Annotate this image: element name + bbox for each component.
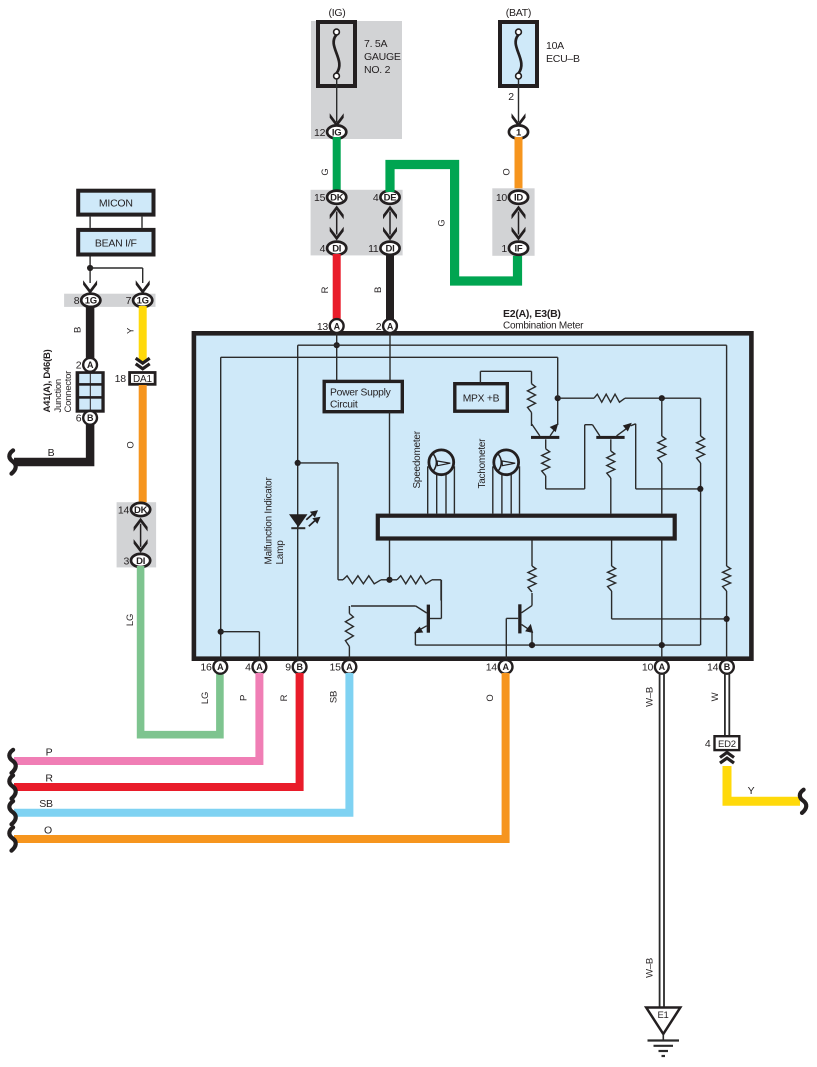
resistor R10 vertical x726 xyxy=(723,566,731,591)
wire G green loop from 4 DE to 1 IF xyxy=(390,165,518,282)
svg-text:Combination Meter: Combination Meter xyxy=(503,321,584,332)
svg-text:ED2: ED2 xyxy=(718,739,736,750)
connector pin 14 DK xyxy=(131,503,150,516)
svg-text:7. 5A: 7. 5A xyxy=(364,38,388,50)
svg-text:GAUGE: GAUGE xyxy=(364,51,401,63)
svg-text:A: A xyxy=(334,321,341,331)
svg-text:O: O xyxy=(126,441,137,448)
wire LG light green from 3 DI to 16 A xyxy=(141,566,220,735)
wire 2A down to power supply xyxy=(389,333,391,382)
svg-text:Lamp: Lamp xyxy=(275,540,286,565)
svg-text:B: B xyxy=(724,662,731,672)
resistor R5 vertical xyxy=(528,384,536,413)
svg-text:Malfunction Indicator: Malfunction Indicator xyxy=(264,477,275,565)
svg-text:DK: DK xyxy=(330,193,344,204)
svg-text:LG: LG xyxy=(125,614,136,626)
gauge speedometer xyxy=(412,430,454,513)
wire BEAN I/F to 1G pins xyxy=(89,257,91,284)
meter pin 14 A xyxy=(499,660,513,674)
svg-text:SB: SB xyxy=(329,691,340,703)
connector pin 7 1G xyxy=(133,294,152,307)
svg-text:Y: Y xyxy=(126,327,137,334)
wire P pink from 4 A to left xyxy=(14,673,259,761)
transistor Q2 xyxy=(596,436,624,439)
svg-text:15: 15 xyxy=(330,662,342,674)
svg-text:W: W xyxy=(710,692,721,701)
svg-text:O: O xyxy=(502,168,513,175)
junction arrows DE-DI xyxy=(389,212,391,235)
node junction Q4 emitter xyxy=(529,642,535,648)
meter pin 10 A xyxy=(655,660,669,674)
combination meter E2(A) E3(B) box xyxy=(194,333,752,658)
resistor R8 vertical x661 xyxy=(661,398,663,436)
svg-text:4: 4 xyxy=(705,738,711,750)
wire R red from 9 B to left xyxy=(14,673,300,787)
connector block gray panel ID/IF xyxy=(492,188,534,256)
wire W double from 14 B to ED2 xyxy=(724,673,726,736)
connector pin 6 B junction xyxy=(83,411,97,425)
transistor Q3 xyxy=(427,605,430,633)
block MICON xyxy=(78,191,153,215)
transistor Q4 xyxy=(518,604,521,633)
svg-text:A: A xyxy=(87,360,94,370)
wire fuse IG to connector 12 IG xyxy=(336,79,338,122)
svg-text:R: R xyxy=(320,286,331,293)
svg-text:4: 4 xyxy=(245,662,251,674)
svg-text:ID: ID xyxy=(514,193,523,204)
svg-text:IF: IF xyxy=(515,244,523,255)
svg-text:DI: DI xyxy=(332,244,341,255)
svg-text:1G: 1G xyxy=(85,296,97,307)
svg-text:Power Supply: Power Supply xyxy=(330,388,392,399)
svg-text:Circuit: Circuit xyxy=(330,400,358,411)
svg-text:(IG): (IG) xyxy=(328,7,345,19)
svg-text:B: B xyxy=(296,662,303,672)
connector pin 1 xyxy=(509,125,528,138)
meter pin 16 A xyxy=(213,660,227,674)
svg-text:W–B: W–B xyxy=(645,958,656,978)
wire left vertical to 16A xyxy=(220,357,222,660)
svg-text:B: B xyxy=(48,447,55,459)
svg-text:12: 12 xyxy=(314,127,326,139)
svg-text:7: 7 xyxy=(126,295,132,307)
meter pin 15 A xyxy=(343,660,357,674)
meter pin 2 A xyxy=(383,319,397,333)
svg-text:A: A xyxy=(217,662,224,672)
svg-text:R: R xyxy=(45,773,53,785)
wire 10A vertical below bus xyxy=(661,541,663,661)
svg-text:MPX +B: MPX +B xyxy=(463,394,500,405)
node junction Q1 emitter rail xyxy=(555,395,561,401)
junction arrows DK-DI xyxy=(336,212,338,235)
wire drop x700 xyxy=(700,398,702,436)
meter pin 14 B xyxy=(720,660,734,674)
node junction 10A rail xyxy=(659,642,665,648)
svg-text:E2(A), E3(B): E2(A), E3(B) xyxy=(503,308,561,320)
svg-text:A: A xyxy=(346,662,353,672)
svg-text:SB: SB xyxy=(39,798,53,810)
svg-text:ECU–B: ECU–B xyxy=(546,53,580,65)
ground E1 xyxy=(646,1008,680,1035)
wire R red from 4 DI to 13 A xyxy=(333,254,341,319)
gray background panel behind IG fuse xyxy=(311,21,402,139)
svg-text:A: A xyxy=(256,662,263,672)
svg-text:B: B xyxy=(73,327,84,333)
wire Y yellow from 7 1G to DA1 xyxy=(139,306,147,362)
connector pin 11 DI xyxy=(380,242,399,255)
connector block gray panel DK/DI DE/DI xyxy=(311,190,403,256)
connector pin 4 DE xyxy=(380,191,399,204)
svg-text:1G: 1G xyxy=(137,296,149,307)
svg-text:P: P xyxy=(46,747,53,759)
node junction rail-R8 xyxy=(659,395,665,401)
wire O orange from 14 A to left xyxy=(14,673,506,839)
LED emission arrows xyxy=(306,514,312,519)
junction arrows DK-DI left xyxy=(140,524,142,547)
wire 14B vertical xyxy=(726,345,728,566)
svg-text:3: 3 xyxy=(124,555,130,567)
connector pin 2 A junction xyxy=(83,358,97,372)
svg-text:DE: DE xyxy=(384,193,397,204)
wire G green from 12 IG to 15 DK xyxy=(333,137,341,192)
svg-text:DI: DI xyxy=(386,244,395,255)
meter pin 4 A xyxy=(253,660,267,674)
wire B black from 8 1G to junction connector xyxy=(86,306,95,359)
svg-text:A: A xyxy=(502,662,509,672)
wire B black from 11 DI to 2 A xyxy=(386,254,394,319)
node junction 13A xyxy=(334,342,340,348)
wire O orange from 1 to 10 ID xyxy=(515,137,523,192)
resistor R1 horizontal xyxy=(338,579,343,581)
block MPX +B xyxy=(455,384,508,412)
resistor R6 below Q1 base xyxy=(545,439,547,449)
wire branch to 4A xyxy=(221,631,260,633)
svg-text:O: O xyxy=(485,694,496,701)
resistor R9 vertical x700 xyxy=(697,436,705,463)
transistor Q1 xyxy=(531,436,559,439)
resistor R7 below Q2 base xyxy=(610,439,612,451)
junction arrows ID-IF xyxy=(518,212,520,235)
connector pin 4 DI xyxy=(327,242,346,255)
wire MPX to resistor R5 xyxy=(479,371,481,383)
svg-text:DK: DK xyxy=(134,505,148,516)
svg-text:1: 1 xyxy=(501,243,507,255)
svg-text:Speedometer: Speedometer xyxy=(412,430,423,488)
wire 13A down to power supply xyxy=(336,333,338,382)
svg-text:DI: DI xyxy=(136,556,145,567)
svg-text:6: 6 xyxy=(76,413,82,425)
svg-text:E1: E1 xyxy=(657,1010,668,1021)
svg-text:9: 9 xyxy=(285,662,291,674)
connector gray strip 1G xyxy=(64,294,155,307)
block power supply circuit xyxy=(324,381,402,411)
wires MICON to BEAN I/F xyxy=(89,217,91,228)
svg-text:2: 2 xyxy=(508,91,514,103)
wire malfunction lamp vertical xyxy=(297,345,299,660)
splice 4 ED2 xyxy=(715,736,740,750)
svg-text:10: 10 xyxy=(496,192,508,204)
svg-text:IG: IG xyxy=(332,127,342,138)
gauge tachometer xyxy=(477,438,520,514)
svg-text:Tachometer: Tachometer xyxy=(477,438,488,489)
meter pin 9 B xyxy=(293,660,307,674)
svg-text:Y: Y xyxy=(748,785,755,797)
svg-text:O: O xyxy=(44,825,52,837)
svg-text:18: 18 xyxy=(115,373,127,385)
resistor R2 horizontal xyxy=(397,576,432,584)
wire top horizontal rail xyxy=(298,344,727,346)
svg-text:MICON: MICON xyxy=(99,198,133,210)
node junction 14B rail xyxy=(724,616,730,622)
wire O orange from DA1 to 14 DK xyxy=(139,385,147,504)
node junction LED branch xyxy=(295,460,301,466)
connector pin 8 1G xyxy=(81,294,100,307)
wire emitter rail xyxy=(415,644,700,646)
svg-text:2: 2 xyxy=(376,321,382,333)
splice 18 DA1 xyxy=(130,373,156,385)
wire W-B double from 10 A to E1 xyxy=(659,673,661,1008)
wire B black to left edge xyxy=(14,424,90,462)
svg-text:14: 14 xyxy=(707,662,719,674)
svg-text:P: P xyxy=(239,695,250,701)
junction connector A41(A) D46(B) xyxy=(76,371,105,413)
svg-text:13: 13 xyxy=(317,321,329,333)
horizontal resistor rail y398 xyxy=(558,397,594,399)
bus bar xyxy=(378,516,675,539)
connector pin 15 DK xyxy=(327,191,346,204)
wire break squiggle B xyxy=(9,450,15,473)
splice chevrons DA1 xyxy=(136,358,150,363)
svg-text:B: B xyxy=(87,413,94,423)
connector pin 1 IF xyxy=(509,242,528,255)
resistor R11 vertical x611 xyxy=(611,541,613,567)
splice chevrons ED2 xyxy=(720,758,734,763)
svg-text:R: R xyxy=(279,694,290,701)
wire SB from 15 A to left xyxy=(14,673,349,813)
node junction Q2 emitter xyxy=(697,486,703,492)
svg-text:(BAT): (BAT) xyxy=(506,7,531,19)
svg-text:G: G xyxy=(320,168,331,175)
wire power supply to bus xyxy=(389,412,391,514)
svg-text:16: 16 xyxy=(200,662,212,674)
wire Y yellow from ED2 to right xyxy=(727,766,800,801)
svg-text:LG: LG xyxy=(200,692,211,704)
connector pin 3 DI xyxy=(131,554,150,567)
svg-text:11: 11 xyxy=(368,243,379,255)
svg-text:W–B: W–B xyxy=(645,687,656,707)
svg-text:10A: 10A xyxy=(546,40,564,52)
connector block gray panel DK/DI left xyxy=(117,502,157,567)
wire branch right from LED node xyxy=(298,462,338,464)
wire second horizontal rail xyxy=(221,356,558,358)
svg-text:A41(A), D46(B): A41(A), D46(B) xyxy=(42,349,53,412)
connector pin 12 IG xyxy=(327,125,346,138)
svg-text:DA1: DA1 xyxy=(133,374,152,385)
wire bus to resistor rail xyxy=(389,541,391,580)
svg-text:BEAN I/F: BEAN I/F xyxy=(95,237,137,249)
svg-text:4: 4 xyxy=(373,192,379,204)
svg-text:14: 14 xyxy=(118,504,130,516)
connector pin 10 ID xyxy=(509,191,528,204)
svg-text:15: 15 xyxy=(314,192,326,204)
svg-text:8: 8 xyxy=(74,295,80,307)
svg-text:10: 10 xyxy=(642,662,654,674)
svg-text:Connector: Connector xyxy=(63,371,74,413)
resistor R3 vertical to 15A xyxy=(348,606,350,614)
svg-text:14: 14 xyxy=(486,662,498,674)
meter pin 13 A xyxy=(330,319,344,333)
wire rail2 drop to Q1 xyxy=(557,357,559,398)
LED malfunction indicator lamp xyxy=(289,514,308,527)
node junction 16A branch xyxy=(218,629,224,635)
svg-text:A: A xyxy=(387,321,394,331)
block BEAN I/F xyxy=(78,230,153,255)
svg-text:B: B xyxy=(373,287,384,293)
svg-text:A: A xyxy=(659,662,666,672)
svg-text:NO. 2: NO. 2 xyxy=(364,64,391,76)
svg-text:G: G xyxy=(437,219,448,226)
svg-text:4: 4 xyxy=(320,243,326,255)
wire horizontal y618 xyxy=(612,618,727,620)
resistor R4 vertical above Q4 xyxy=(531,541,533,567)
svg-text:2: 2 xyxy=(76,360,82,372)
node junction resistor rail xyxy=(386,577,392,583)
